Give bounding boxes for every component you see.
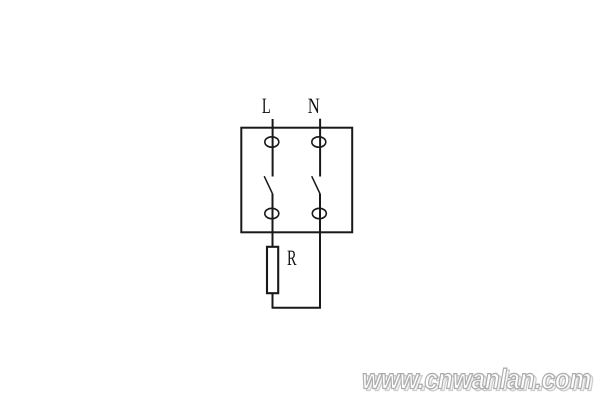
terminal (312, 137, 326, 147)
node L (262, 93, 271, 118)
switch S1 (264, 176, 272, 193)
terminal (312, 208, 326, 218)
svg-text:www.cnwanlan.com: www.cnwanlan.com (362, 364, 591, 395)
wire (319, 194, 321, 233)
wire (272, 119, 274, 177)
wire (272, 293, 274, 308)
wire (272, 307, 321, 309)
wire (319, 232, 321, 308)
switch S2 (312, 176, 320, 193)
terminal (265, 208, 279, 218)
value label R (287, 245, 297, 270)
node N (308, 93, 320, 118)
wire (272, 232, 274, 247)
svg-text:R: R (287, 245, 297, 270)
switch enclosure U1 (241, 128, 352, 233)
resistor R (267, 247, 278, 293)
wire (319, 119, 321, 177)
terminal (265, 137, 279, 147)
svg-text:N: N (308, 93, 320, 118)
svg-text:L: L (262, 93, 271, 118)
wire (272, 194, 274, 233)
